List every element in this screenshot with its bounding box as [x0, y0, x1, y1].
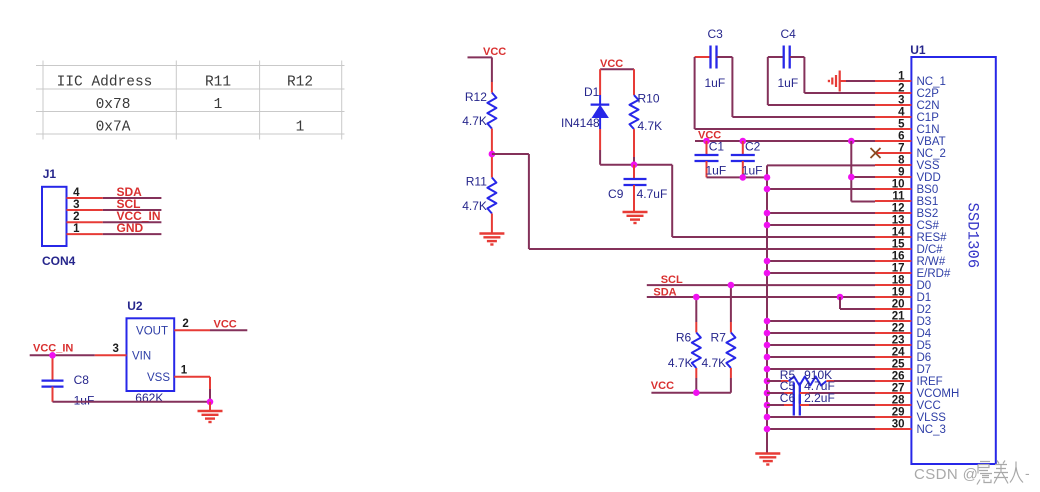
wire D1 anode down — [599, 129, 601, 150]
svg-text:0x78: 0x78 — [96, 97, 131, 113]
junction bus D6 — [764, 354, 771, 361]
U1 pin 4 C1P — [875, 107, 939, 125]
wire VCC to R10 — [633, 69, 635, 95]
U1 pin 7 NC_2 — [875, 143, 946, 161]
svg-text:BS0: BS0 — [917, 184, 939, 196]
svg-text:RES#: RES# — [917, 232, 948, 244]
wire E/RD# to ground bus — [767, 272, 875, 274]
wire SCL to D0 — [647, 284, 875, 286]
wire C3 right to C1P — [731, 57, 733, 117]
J1 pin 3 — [67, 209, 103, 211]
junction bus IREF — [764, 378, 771, 385]
svg-text:U2: U2 — [127, 299, 143, 313]
svg-text:NC_3: NC_3 — [917, 424, 946, 436]
junction bus E/RD# — [764, 270, 771, 277]
svg-text:1uF: 1uF — [778, 76, 799, 90]
svg-text:D4: D4 — [917, 328, 932, 340]
wire VCC from U2 VOUT — [210, 329, 247, 331]
wire BS2 to ground bus — [767, 212, 875, 214]
junction bus D7 — [764, 366, 771, 373]
junction SCL / R7 — [728, 282, 735, 289]
junction C1 top — [703, 138, 710, 145]
wire net GND — [103, 233, 162, 235]
U2 pin 3 — [95, 354, 127, 356]
junction U2 VSS / C8 — [207, 399, 214, 406]
svg-text:10: 10 — [892, 179, 905, 191]
svg-text:3: 3 — [113, 343, 119, 355]
wire VCC to R12 — [491, 57, 493, 82]
wire C5 to VCOMH pin — [800, 392, 809, 394]
svg-text:1uF: 1uF — [74, 394, 95, 408]
svg-text:1uF: 1uF — [705, 76, 726, 90]
svg-text:C2: C2 — [745, 140, 761, 154]
svg-text:R12: R12 — [287, 75, 313, 91]
svg-text:1: 1 — [214, 97, 223, 113]
svg-text:1: 1 — [296, 120, 305, 136]
svg-text:4: 4 — [73, 187, 80, 199]
svg-text:VCC: VCC — [483, 46, 506, 58]
svg-text:2: 2 — [898, 83, 904, 95]
U1 pin 16 R/W# — [875, 251, 946, 269]
wire R12 to R11 — [491, 129, 493, 178]
svg-text:C2P: C2P — [917, 88, 940, 100]
svg-text:662K: 662K — [135, 391, 163, 405]
junction VCC_IN / C8 — [49, 352, 56, 359]
svg-text:VCC: VCC — [214, 319, 237, 331]
svg-text:D7: D7 — [917, 364, 932, 376]
wire R11 to ground — [491, 214, 493, 234]
wire node to RES# — [671, 165, 673, 237]
wire net VCC_IN — [103, 221, 162, 223]
junction bus CS# — [764, 222, 771, 229]
svg-text:-: - — [1025, 465, 1030, 481]
wire D5 to ground bus — [767, 344, 875, 346]
svg-text:R12: R12 — [465, 90, 487, 104]
resistor R5 — [789, 377, 827, 386]
U1 pin 24 D6 — [875, 347, 931, 365]
resistor R12 — [487, 93, 496, 129]
svg-text:D2: D2 — [917, 304, 932, 316]
svg-text:2: 2 — [182, 318, 188, 330]
wire NC_3 to ground bus — [767, 428, 875, 430]
wire reset node to RES# pin — [672, 236, 875, 238]
ground symbol R11 — [479, 234, 504, 245]
wire VDD stub — [851, 176, 875, 178]
svg-text:4.7K: 4.7K — [462, 199, 487, 213]
J1 pin 4 — [67, 197, 103, 199]
svg-text:R7: R7 — [711, 331, 727, 345]
svg-text:22: 22 — [892, 323, 905, 335]
junction bus D5 — [764, 342, 771, 349]
wire C4 left to C2N — [767, 57, 769, 105]
U1 pin 30 NC_3 — [875, 419, 946, 437]
U1 pin 1 NC_1 — [875, 71, 946, 89]
capacitor C8 — [52, 355, 54, 380]
svg-text:7: 7 — [898, 143, 904, 155]
junction bus R/W# — [764, 258, 771, 265]
svg-text:1: 1 — [181, 365, 188, 377]
wire C4 right to C2P — [803, 57, 805, 93]
svg-text:6: 6 — [898, 131, 904, 143]
svg-text:C6: C6 — [780, 391, 796, 405]
ground symbol U2 — [198, 411, 223, 422]
svg-text:IIC Address: IIC Address — [57, 75, 153, 91]
svg-text:C8: C8 — [74, 373, 90, 387]
svg-text:3: 3 — [898, 95, 904, 107]
wire D3 to ground bus — [767, 320, 875, 322]
resistor R7 — [726, 333, 735, 369]
U1 pin 10 BS0 — [875, 179, 938, 197]
J1 pin 1 — [67, 233, 103, 235]
junction C2 bottom — [740, 174, 747, 181]
svg-text:C4: C4 — [781, 27, 797, 41]
svg-text:19: 19 — [892, 287, 905, 299]
svg-text:BS2: BS2 — [917, 208, 939, 220]
wire net SDA — [103, 197, 162, 199]
svg-text:R10: R10 — [638, 92, 660, 106]
svg-text:VCC: VCC — [651, 380, 674, 392]
junction bus / C1 C2 — [764, 174, 771, 181]
svg-text:VDD: VDD — [917, 172, 941, 184]
svg-text:15: 15 — [892, 239, 905, 251]
capacitor C6 — [793, 395, 795, 416]
wire CS# to ground bus — [767, 224, 875, 226]
svg-text:18: 18 — [892, 275, 905, 287]
wire C6 to VCC pin — [800, 404, 809, 406]
U1 pin 2 C2P — [875, 83, 939, 101]
svg-text:D/C#: D/C# — [917, 244, 944, 256]
svg-text:VBAT: VBAT — [917, 136, 946, 148]
wire D6 to ground bus — [767, 356, 875, 358]
U1 pin 28 VCC — [875, 395, 941, 413]
junction SDA / D2 branch — [837, 294, 844, 301]
svg-text:CON4: CON4 — [42, 254, 76, 268]
svg-text:D1: D1 — [917, 292, 932, 304]
wire bus to C5 — [767, 392, 784, 394]
capacitor C2 — [742, 141, 744, 155]
svg-text:NC_1: NC_1 — [917, 76, 946, 88]
wire R5 to IREF pin — [826, 380, 834, 382]
junction bus VCOMH — [764, 390, 771, 397]
wire SDA to D1 — [647, 296, 875, 298]
svg-text:VCC: VCC — [917, 400, 941, 412]
svg-text:VLSS: VLSS — [917, 412, 947, 424]
junction bus NC_3 — [764, 426, 771, 433]
svg-text:4.7K: 4.7K — [638, 119, 663, 133]
svg-text:4.7K: 4.7K — [462, 114, 487, 128]
junction R12/R11 — [489, 151, 496, 158]
wire NC_1 to ground — [840, 80, 846, 82]
svg-text:4.7K: 4.7K — [668, 356, 693, 370]
svg-text:C1P: C1P — [917, 112, 940, 124]
U1 pin 14 RES# — [875, 227, 947, 245]
wire R7 bottom — [730, 368, 732, 378]
U1 pin 13 CS# — [875, 215, 939, 233]
wire VSS pin8 — [767, 164, 875, 166]
svg-text:8: 8 — [898, 155, 905, 167]
U1 pin 27 VCOMH — [875, 383, 959, 401]
svg-text:D6: D6 — [917, 352, 932, 364]
svg-text:NC_2: NC_2 — [917, 148, 946, 160]
wire C1/C2 bottoms to ground bus — [707, 176, 768, 178]
junction VDD branch top — [848, 138, 855, 145]
U1 pin 17 E/RD# — [875, 263, 951, 281]
svg-text:28: 28 — [892, 395, 905, 407]
svg-text:VIN: VIN — [132, 351, 151, 363]
svg-text:VSS: VSS — [917, 160, 940, 172]
svg-text:IREF: IREF — [917, 376, 943, 388]
ground bus vertical — [766, 165, 768, 453]
wire VCC to pullups — [651, 392, 731, 394]
junction bus D3 — [764, 318, 771, 325]
no-connect X on pin 7 NC_2 — [871, 148, 881, 158]
svg-text:J1: J1 — [43, 167, 57, 181]
svg-text:23: 23 — [892, 335, 905, 347]
U1 pin 29 VLSS — [875, 407, 946, 425]
capacitor C5 — [793, 383, 795, 404]
wire divider to D/C# — [492, 153, 529, 155]
U1 pin 8 VSS — [875, 155, 940, 173]
svg-text:9: 9 — [898, 167, 904, 179]
junction R6 / VCC — [693, 389, 700, 396]
svg-text:30: 30 — [892, 419, 905, 431]
junction bus VLSS — [764, 414, 771, 421]
svg-text:R/W#: R/W# — [917, 256, 946, 268]
U1 pin 22 D4 — [875, 323, 932, 341]
svg-text:12: 12 — [892, 203, 905, 215]
U1 pin 21 D3 — [875, 311, 931, 329]
ground symbol C9 — [623, 212, 648, 223]
U1 pin 3 C2N — [875, 95, 940, 113]
wire BS0 to ground bus — [767, 188, 875, 190]
svg-text:0x7A: 0x7A — [96, 120, 131, 136]
svg-text:SSD1306: SSD1306 — [964, 203, 982, 269]
svg-text:21: 21 — [892, 311, 905, 323]
svg-text:14: 14 — [892, 227, 905, 239]
svg-text:VCOMH: VCOMH — [917, 388, 960, 400]
U1 pin 9 VDD — [875, 167, 941, 185]
resistor R6 — [692, 333, 701, 369]
wire C3 left to C1N — [694, 57, 696, 129]
J1 pin 2 — [67, 221, 103, 223]
wire D1/R10/C9 node — [600, 164, 672, 166]
svg-text:13: 13 — [892, 215, 905, 227]
capacitor C9 — [633, 165, 635, 179]
capacitor C1 — [706, 141, 708, 155]
svg-text:1uF: 1uF — [706, 164, 727, 178]
svg-text:27: 27 — [892, 383, 905, 395]
svg-text:R6: R6 — [676, 331, 692, 345]
ground U2 — [209, 402, 211, 411]
svg-text:17: 17 — [892, 263, 905, 275]
U1 pin 25 D7 — [875, 359, 931, 377]
wire bus to C6 — [767, 404, 784, 406]
wire U2 VSS to ground — [209, 377, 211, 389]
wire D4 to ground bus — [767, 332, 875, 334]
svg-text:1: 1 — [898, 71, 905, 83]
junction bus VCC pin28 — [764, 402, 771, 409]
U1 pin 20 D2 — [875, 299, 931, 317]
junction C9 node — [631, 161, 638, 168]
svg-text:2.2uF: 2.2uF — [804, 391, 835, 405]
svg-text:4: 4 — [898, 107, 905, 119]
svg-text:11: 11 — [892, 191, 905, 203]
svg-text:5: 5 — [898, 119, 905, 131]
svg-text:VOUT: VOUT — [136, 326, 168, 338]
U1 pin 6 VBAT — [875, 131, 946, 149]
junction C2 top — [740, 138, 747, 145]
svg-text:D5: D5 — [917, 340, 932, 352]
wire VCC_IN — [30, 354, 95, 356]
svg-text:3: 3 — [73, 199, 79, 211]
svg-text:D3: D3 — [917, 316, 932, 328]
resistor R10 — [630, 95, 639, 129]
wire R10 to junction — [633, 129, 635, 157]
svg-text:20: 20 — [892, 299, 905, 311]
U1 pin 15 D/C# — [875, 239, 943, 257]
svg-text:2: 2 — [73, 211, 79, 223]
wire divider to D/C# pin — [529, 248, 875, 250]
svg-text:1: 1 — [73, 223, 80, 235]
wire D7 to ground bus — [767, 368, 875, 370]
svg-text:D1: D1 — [584, 85, 600, 99]
svg-text:C1: C1 — [709, 140, 725, 154]
svg-text:BS1: BS1 — [917, 196, 939, 208]
wire net SCL — [103, 209, 162, 211]
wire VCC rail to VBAT — [695, 140, 875, 142]
U1 pin 5 C1N — [875, 119, 940, 137]
junction bus BS0 — [764, 186, 771, 193]
svg-text:D0: D0 — [917, 280, 932, 292]
ground symbol bus — [755, 454, 780, 465]
watermark CJK glyphs — [977, 461, 1023, 485]
U1 pin 26 IREF — [875, 371, 943, 389]
U1 pin 18 D0 — [875, 275, 931, 293]
svg-text:C3: C3 — [708, 27, 724, 41]
U1 pin 23 D5 — [875, 335, 931, 353]
U2 pin 2 — [174, 329, 210, 331]
U2 pin 1 — [174, 376, 210, 378]
svg-text:24: 24 — [892, 347, 905, 359]
U1 pin 11 BS1 — [875, 191, 938, 209]
U1 pin 12 BS2 — [875, 203, 938, 221]
svg-text:C2N: C2N — [917, 100, 940, 112]
wire IREF to R5 — [767, 380, 781, 382]
svg-text:4.7uF: 4.7uF — [637, 187, 668, 201]
svg-text:26: 26 — [892, 371, 905, 383]
svg-text:R11: R11 — [205, 75, 231, 91]
svg-text:CSDN @: CSDN @ — [914, 466, 978, 483]
svg-text:IN4148: IN4148 — [561, 116, 600, 130]
svg-text:C9: C9 — [608, 187, 624, 201]
svg-text:R11: R11 — [466, 175, 487, 189]
diode D1 — [591, 95, 610, 129]
wire SDA branch to D2 — [839, 297, 841, 309]
wire SCL to R7 — [730, 285, 732, 322]
junction SDA / R6 — [693, 294, 700, 301]
svg-text:E/RD#: E/RD# — [917, 268, 951, 280]
svg-text:CS#: CS# — [917, 220, 940, 232]
wire C8 to ground — [53, 401, 211, 403]
wire SDA to R6 — [695, 297, 697, 322]
svg-text:VSS: VSS — [147, 372, 170, 384]
wire VLSS to ground bus — [767, 416, 875, 418]
svg-text:C1N: C1N — [917, 124, 940, 136]
svg-text:GND: GND — [117, 221, 144, 235]
svg-text:16: 16 — [892, 251, 905, 263]
wire R/W# to ground bus — [767, 260, 875, 262]
resistor R11 — [487, 178, 496, 214]
svg-text:25: 25 — [892, 359, 905, 371]
wire VCC to D1 — [599, 69, 601, 95]
svg-text:4.7K: 4.7K — [702, 356, 727, 370]
wire VDD/BS1 branch vertical — [850, 141, 852, 202]
ground symbol NC_1 (rotated) — [829, 71, 840, 92]
svg-text:U1: U1 — [910, 43, 926, 57]
junction VDD — [848, 174, 855, 181]
svg-text:29: 29 — [892, 407, 905, 419]
junction bus D4 — [764, 330, 771, 337]
U1 pin 19 D1 — [875, 287, 931, 305]
wire R6 bottom — [695, 368, 697, 378]
junction bus BS2 — [764, 210, 771, 217]
